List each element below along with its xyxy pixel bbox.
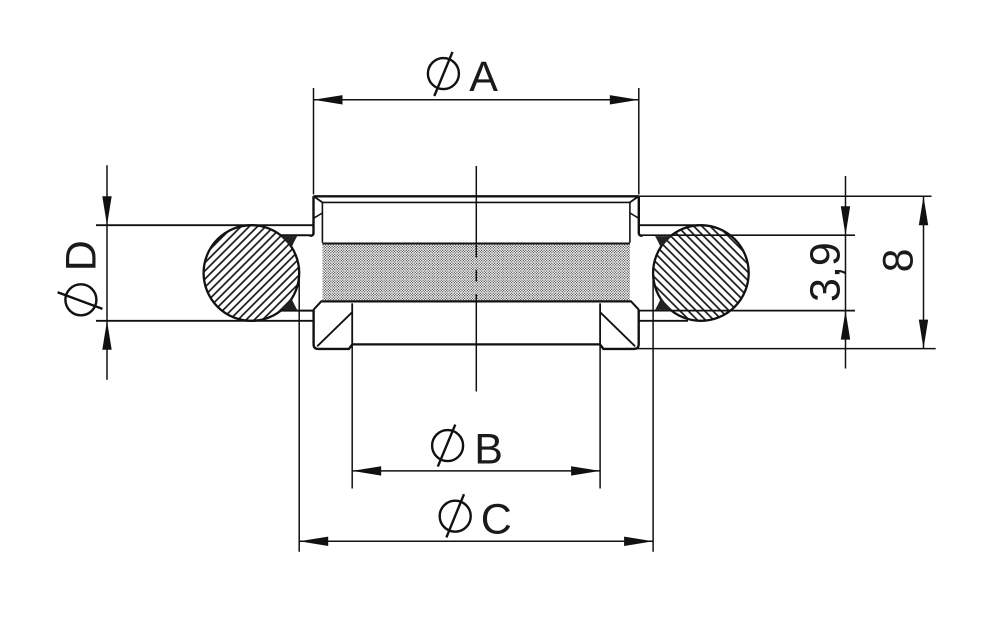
arrow B left xyxy=(352,466,381,475)
seam joint left (rim of retaining ring) xyxy=(351,303,353,344)
dimension line 8 (vertical) xyxy=(923,196,925,348)
arrow B right xyxy=(571,466,600,475)
dimension 8 xyxy=(635,196,936,348)
svg-text:3,9: 3,9 xyxy=(802,242,850,302)
filter mesh screen (dotted band) xyxy=(322,244,630,302)
flange bore edge right xyxy=(629,202,631,242)
lip line left (groove top edge) xyxy=(280,234,310,236)
arrow 3,9 top (outside, pointing down) xyxy=(841,206,850,235)
dimension 3,9 xyxy=(845,176,847,369)
mesh chamfer diagonal right xyxy=(631,301,639,310)
label diameter-C xyxy=(440,494,512,543)
flange chamfer inner line xyxy=(322,201,630,203)
flange bore chamfer diagonal left xyxy=(314,213,322,218)
svg-text:B: B xyxy=(474,425,503,473)
flange bore edge left xyxy=(321,202,323,242)
o-ring groove lip sliver right upper xyxy=(655,236,671,247)
svg-text:C: C xyxy=(481,496,512,544)
lip line right / extension for 3,9 top xyxy=(639,234,855,236)
arrow C right xyxy=(624,537,653,546)
dimension line C xyxy=(299,540,653,542)
cone chamfer diagonal right xyxy=(600,312,635,346)
o-ring groove lip sliver right lower xyxy=(655,299,671,310)
lower body left edge with rounded corner xyxy=(314,309,353,349)
arrow D bottom (outside, pointing up) xyxy=(102,321,111,350)
svg-text:8: 8 xyxy=(875,248,923,272)
mesh chamfer diagonal left xyxy=(314,301,322,310)
body lower half xyxy=(314,301,639,349)
flange bore chamfer diagonal right xyxy=(630,213,638,218)
svg-text:A: A xyxy=(469,53,498,101)
extension line 8 top (flange top prolonged) xyxy=(639,195,932,197)
flange top edge xyxy=(314,195,639,197)
flange chamfer diagonal left xyxy=(314,197,322,203)
o-ring right (section, hatched) xyxy=(653,225,749,321)
extension line A right xyxy=(638,88,640,195)
arrow A right xyxy=(610,95,639,104)
arrow C left xyxy=(299,537,328,546)
arrow 3,9 bottom (outside, pointing up) xyxy=(841,311,850,340)
extension line A left xyxy=(313,88,315,195)
o-ring bottom tangent left / extension for D xyxy=(96,320,313,322)
o-ring left (section, hatched) xyxy=(204,225,300,321)
extension line B right xyxy=(599,344,601,488)
lower lip line right / extension for 3,9 bottom xyxy=(639,310,855,312)
arrow 8 bottom (pointing down) xyxy=(919,320,928,349)
centre line xyxy=(475,166,477,392)
arrow A left xyxy=(314,95,343,104)
dimension line D (vertical) xyxy=(106,165,108,380)
upper lip lines xyxy=(96,225,855,321)
arrow D top (outside, pointing down) xyxy=(102,196,111,225)
lower body right edge with rounded corner xyxy=(600,309,639,349)
flange left edge xyxy=(310,196,314,236)
label diameter-A xyxy=(428,52,498,101)
dimension line B xyxy=(352,470,600,472)
label diameter-D (rotated) xyxy=(57,240,105,315)
flange underside line right xyxy=(639,224,703,226)
flange right edge xyxy=(639,196,643,236)
label diameter-B xyxy=(432,425,503,474)
seam joint right xyxy=(599,303,601,344)
extension line C left xyxy=(298,274,300,552)
dimension A xyxy=(314,88,639,195)
centering ring body: top flange xyxy=(310,196,643,242)
extension line 8 bottom xyxy=(635,348,936,350)
flange chamfer diagonal right xyxy=(630,197,638,203)
extension line C right xyxy=(652,274,654,552)
dimension line 3,9 (vertical) xyxy=(845,176,847,369)
o-ring groove lip sliver left upper xyxy=(281,236,297,247)
o-ring top tangent left / extension for D xyxy=(96,224,314,226)
lower lip line left xyxy=(281,310,314,312)
dimension C xyxy=(299,274,653,552)
retaining ring bottom face xyxy=(352,343,600,345)
extension line B left xyxy=(351,344,353,488)
o-ring groove lip sliver left lower xyxy=(281,299,297,310)
dimension line A xyxy=(314,99,639,101)
dimension D (o-ring cord) xyxy=(106,165,108,380)
dimension B xyxy=(352,344,600,488)
arrow 8 top (pointing up) xyxy=(919,196,928,225)
lower lip underside right xyxy=(639,320,688,322)
svg-text:D: D xyxy=(57,240,105,271)
cone chamfer diagonal left xyxy=(317,312,352,346)
